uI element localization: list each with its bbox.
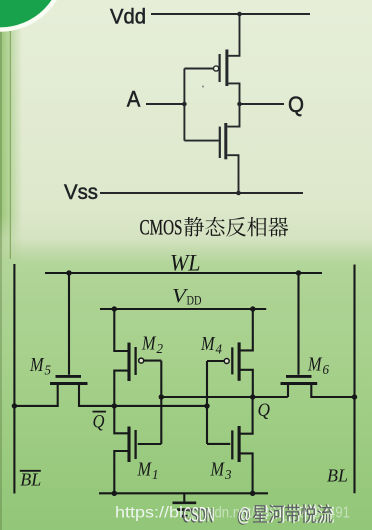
- transistor M3 channel bar: [238, 426, 241, 462]
- svg-text:Vdd: Vdd: [110, 4, 146, 28]
- svg-text:M: M: [307, 354, 322, 376]
- transistor M2 channel bar: [127, 343, 130, 381]
- transistor M6 gate bar: [286, 375, 312, 378]
- left green band: [0, 0, 24, 272]
- wire M2 source: [114, 309, 127, 351]
- transistor M6 channel bar: [281, 382, 318, 385]
- overbar Qbar: [93, 411, 107, 413]
- Vdd rail: [151, 13, 310, 15]
- dark left edge: [0, 0, 2, 530]
- wire NMOS source to Vss: [227, 155, 238, 193]
- wire PMOS drain to node Q: [228, 83, 239, 104]
- wire M1 drain: [114, 406, 127, 433]
- node dot A junction: [182, 102, 187, 107]
- wire M2 drain to Qbar: [114, 371, 127, 406]
- node dot VDD-M2: [112, 306, 117, 311]
- svg-text:A: A: [127, 87, 141, 112]
- node dot output Q: [237, 102, 242, 107]
- svg-text:https://bl: https://bl: [115, 505, 183, 522]
- wire M3 source to ground: [240, 453, 252, 493]
- wire M4 gate lead: [207, 360, 224, 362]
- svg-text:CSDN: CSDN: [184, 504, 215, 527]
- transistor M1 gate bar: [134, 430, 136, 459]
- wire left gate column: [160, 361, 162, 444]
- wire M4 source: [240, 309, 253, 350]
- caption char "静": [184, 217, 204, 237]
- svg-text:M: M: [137, 459, 152, 481]
- wire Q output: [240, 103, 285, 105]
- node dot gnd-M3: [250, 491, 255, 496]
- wire VDD line: [100, 308, 266, 310]
- watermark char "带": [285, 504, 301, 523]
- wire M3 drain: [240, 397, 252, 434]
- wire BLbar column: [13, 264, 15, 494]
- svg-text:CMOS: CMOS: [140, 215, 183, 240]
- caption char "反": [226, 217, 246, 237]
- svg-text:4: 4: [216, 342, 223, 357]
- overbar BLbar: [20, 470, 41, 472]
- op wire: PMOS gate lead: [184, 68, 213, 70]
- wire Q cross line: [161, 396, 287, 398]
- svg-text:2: 2: [157, 341, 164, 356]
- caption char "相": [247, 217, 266, 237]
- PMOS gate bubble: [214, 66, 219, 71]
- svg-text:BL: BL: [20, 470, 41, 490]
- svg-text:Q: Q: [258, 400, 271, 421]
- ground symbol: [173, 493, 197, 516]
- node dot on Vdd rail: [237, 12, 242, 17]
- wire M2 gate lead: [144, 360, 162, 362]
- svg-text:M: M: [200, 333, 215, 355]
- node dot Qbar: [112, 403, 117, 408]
- svg-text:@: @: [238, 505, 252, 526]
- svg-text:DD: DD: [187, 294, 202, 308]
- watermark char "河": [269, 505, 286, 524]
- decorative corner circle: [0, 0, 63, 28]
- wire input branch vertical: [183, 69, 185, 141]
- wire M1 source to ground: [114, 451, 127, 493]
- watermark char "悦": [301, 504, 318, 523]
- transistor M2 gate bar: [134, 347, 136, 375]
- wire M6 gate lead: [297, 273, 299, 375]
- wire Vdd to PMOS source: [228, 14, 239, 56]
- watermark char "星": [253, 505, 269, 522]
- svg-text:3: 3: [224, 467, 232, 482]
- svg-text:6: 6: [323, 362, 330, 377]
- watermark char "流": [317, 504, 334, 523]
- svg-text:Q: Q: [93, 412, 105, 433]
- wire A input: [146, 103, 184, 105]
- svg-text:M: M: [29, 354, 44, 376]
- transistor Q-P gate bar: [219, 54, 221, 82]
- svg-text:5: 5: [45, 363, 52, 378]
- wire BL column: [353, 265, 355, 494]
- node dot BL junction: [352, 394, 357, 399]
- transistor Q-P channel bar: [225, 50, 228, 87]
- svg-text:Q: Q: [288, 92, 304, 117]
- svg-text:WL: WL: [170, 250, 201, 275]
- transistor M5 gate bar: [56, 375, 82, 378]
- node dot BLbar junction: [12, 403, 17, 408]
- wire M1 gate lead: [138, 443, 162, 445]
- svg-text:M: M: [210, 459, 225, 481]
- caption char "器": [268, 217, 288, 236]
- wire M5 left leg: [14, 385, 57, 406]
- wire M5 right leg to Qbar: [79, 385, 207, 406]
- M2 gate bubble: [139, 358, 144, 363]
- node dot gnd-M1: [112, 491, 117, 496]
- svg-text:M: M: [141, 333, 156, 355]
- node dot on Vss rail: [236, 191, 241, 196]
- wire M5 gate lead: [68, 273, 70, 375]
- transistor M5 channel bar: [50, 382, 88, 385]
- node dot WL-M6: [296, 270, 301, 275]
- node dot WL-M5: [66, 270, 71, 275]
- wire M3 gate lead: [207, 443, 230, 445]
- wire node to NMOS drain: [227, 104, 239, 127]
- wire M4 drain to Q: [240, 370, 253, 397]
- svg-text:1: 1: [152, 467, 159, 482]
- small speck: [202, 86, 204, 88]
- node dot Q: [250, 394, 255, 399]
- node dot Qbar-gate: [204, 403, 209, 408]
- svg-text:Vss: Vss: [64, 180, 98, 204]
- node dot Q-cross: [159, 394, 164, 399]
- circle white ring: [0, 0, 65, 30]
- wire M6 right leg to BL: [311, 385, 354, 397]
- wire right gate column: [206, 361, 208, 444]
- wire M6 left leg: [287, 385, 289, 397]
- wire NMOS gate lead: [184, 140, 218, 142]
- Vss rail: [100, 192, 303, 194]
- caption char "态": [205, 217, 225, 236]
- node dot VDD-M4: [250, 306, 255, 311]
- transistor Q-N channel bar: [224, 123, 227, 159]
- transistor M4 gate bar: [231, 347, 233, 374]
- M4 gate bubble: [224, 359, 229, 364]
- transistor Q-N gate bar: [219, 127, 221, 158]
- transistor M4 channel bar: [238, 342, 241, 380]
- transistor M3 gate bar: [231, 430, 233, 459]
- wire WL line: [45, 272, 322, 274]
- svg-text:BL: BL: [327, 466, 348, 486]
- transistor M1 channel bar: [127, 427, 130, 463]
- wire ground rail: [99, 492, 268, 494]
- decorative vertical line: [9, 31, 11, 259]
